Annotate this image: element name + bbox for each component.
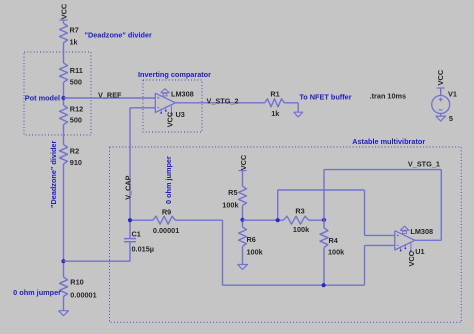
- svg-text:Inverting comparator: Inverting comparator: [138, 70, 211, 79]
- svg-text:To NFET buffer: To NFET buffer: [299, 93, 351, 102]
- svg-text:VCC: VCC: [166, 111, 175, 127]
- svg-text:"Deadzone" divider: "Deadzone" divider: [85, 31, 152, 40]
- svg-text:LM308: LM308: [410, 227, 433, 236]
- svg-text:500: 500: [70, 77, 82, 86]
- svg-text:V1: V1: [448, 89, 457, 98]
- svg-text:U3: U3: [176, 110, 185, 119]
- svg-text:100k: 100k: [293, 225, 310, 234]
- svg-text:1k: 1k: [271, 109, 280, 118]
- svg-text:500: 500: [70, 116, 82, 125]
- svg-text:VCC: VCC: [436, 69, 445, 85]
- svg-text:R2: R2: [70, 147, 79, 156]
- svg-text:0.00001: 0.00001: [70, 291, 96, 300]
- svg-text:Pot model: Pot model: [25, 94, 60, 103]
- svg-text:VCC: VCC: [59, 3, 68, 19]
- svg-text:R6: R6: [247, 235, 256, 244]
- svg-text:C1: C1: [132, 230, 141, 239]
- svg-text:U1: U1: [415, 247, 424, 256]
- svg-text:V_CAP: V_CAP: [124, 175, 133, 199]
- svg-text:VCC: VCC: [239, 154, 248, 170]
- svg-text:100k: 100k: [222, 200, 239, 209]
- svg-text:V_STG_2: V_STG_2: [207, 96, 239, 105]
- svg-text:R3: R3: [295, 206, 304, 215]
- svg-text:0.015µ: 0.015µ: [132, 244, 154, 253]
- svg-text:R1: R1: [270, 90, 279, 99]
- svg-text:VCC: VCC: [407, 250, 416, 266]
- svg-text:R4: R4: [329, 236, 339, 245]
- svg-text:V_REF: V_REF: [98, 91, 122, 100]
- svg-text:R12: R12: [70, 105, 83, 114]
- svg-text:100k: 100k: [247, 248, 264, 257]
- svg-text:910: 910: [70, 158, 82, 167]
- svg-text:0 ohm jumper: 0 ohm jumper: [164, 156, 173, 204]
- svg-text:5: 5: [449, 114, 453, 123]
- svg-text:V_STG_1: V_STG_1: [408, 160, 440, 169]
- svg-text:.tran 10ms: .tran 10ms: [370, 91, 407, 100]
- svg-text:R10: R10: [70, 277, 83, 286]
- svg-text:0.00001: 0.00001: [153, 226, 179, 235]
- svg-text:R11: R11: [70, 66, 83, 75]
- svg-text:0 ohm jumper: 0 ohm jumper: [13, 288, 61, 297]
- svg-text:R7: R7: [70, 26, 79, 35]
- svg-text:R5: R5: [228, 188, 237, 197]
- svg-text:R9: R9: [162, 208, 171, 217]
- svg-text:"Deadzone" divider: "Deadzone" divider: [49, 141, 58, 208]
- svg-text:Astable multivibrator: Astable multivibrator: [352, 137, 425, 146]
- svg-text:LM308: LM308: [171, 89, 194, 98]
- svg-text:1k: 1k: [70, 38, 79, 47]
- svg-text:100k: 100k: [328, 248, 345, 257]
